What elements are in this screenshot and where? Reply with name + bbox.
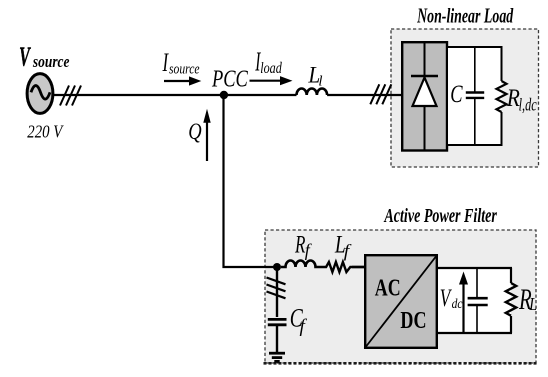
svg-text:L: L bbox=[528, 296, 537, 315]
wire converter bottom rail bbox=[438, 332, 512, 334]
wire inductor to load bbox=[327, 94, 402, 96]
active power filter box bbox=[264, 230, 538, 363]
capacitor C bbox=[466, 47, 484, 145]
capacitor Cdc bbox=[468, 268, 488, 333]
label Rl,dc bbox=[506, 84, 537, 115]
reactive power arrow Q bbox=[203, 109, 210, 161]
wire load top rail bbox=[448, 46, 503, 48]
svg-text:Active Power Filter: Active Power Filter bbox=[384, 204, 497, 227]
capacitor Cf branch wire bbox=[276, 267, 278, 317]
three-phase slash marks at load bbox=[370, 84, 391, 104]
label Isource bbox=[162, 47, 200, 77]
label Vsource bbox=[19, 41, 70, 72]
label Rf bbox=[294, 230, 312, 260]
svg-text:l: l bbox=[318, 74, 322, 90]
node filter input bbox=[273, 263, 281, 271]
svg-text:dc: dc bbox=[452, 296, 463, 311]
svg-text:Non-linear Load: Non-linear Load bbox=[416, 4, 513, 27]
wire PCC down to filter bbox=[224, 95, 278, 267]
current arrow Iload bbox=[250, 76, 293, 85]
label Cf bbox=[290, 304, 308, 337]
label RL bbox=[518, 283, 537, 317]
label Vdc bbox=[440, 284, 463, 312]
resistor Rl,dc bbox=[497, 47, 507, 145]
inductor Ll bbox=[297, 88, 328, 95]
non-linear load box bbox=[391, 29, 539, 167]
svg-text:source: source bbox=[169, 60, 200, 77]
voltage source Vsource bbox=[27, 74, 53, 114]
label Iload bbox=[254, 46, 281, 78]
wire source to PCC bbox=[53, 94, 224, 96]
three-phase slash marks on Cf branch bbox=[267, 278, 286, 299]
wire Lf to converter bbox=[352, 266, 365, 268]
svg-text:C: C bbox=[450, 79, 463, 107]
load mesh background bbox=[448, 47, 502, 145]
svg-text:DC: DC bbox=[400, 306, 426, 333]
label Ll bbox=[307, 62, 322, 90]
converter output mesh background bbox=[438, 268, 511, 333]
resistor Rf (coil symbol) bbox=[281, 261, 319, 268]
capacitor Cf bbox=[268, 319, 287, 353]
wire converter top rail bbox=[438, 267, 512, 269]
wire PCC to inductor bbox=[224, 94, 297, 96]
voltage arrow Vdc bbox=[459, 272, 468, 333]
svg-text:l,dc: l,dc bbox=[519, 95, 537, 115]
three-phase slash marks at source bbox=[60, 86, 81, 106]
resistor RL bbox=[506, 268, 516, 333]
inductor Lf (zigzag symbol) bbox=[319, 262, 366, 272]
svg-text:load: load bbox=[260, 61, 282, 78]
svg-text:Q: Q bbox=[188, 118, 201, 144]
label Lf bbox=[334, 230, 352, 262]
svg-text:AC: AC bbox=[375, 274, 401, 301]
wire load bottom rail bbox=[448, 144, 503, 146]
node PCC bbox=[220, 91, 228, 99]
ground bbox=[269, 353, 285, 361]
svg-text:PCC: PCC bbox=[211, 65, 248, 92]
rectifier diode D1 bbox=[402, 42, 447, 150]
current arrow Isource bbox=[164, 76, 201, 85]
svg-text:source: source bbox=[32, 54, 70, 71]
svg-text:220 V: 220 V bbox=[27, 121, 64, 142]
svg-text:V: V bbox=[19, 41, 31, 72]
converter AC/DC U1 bbox=[365, 255, 438, 349]
